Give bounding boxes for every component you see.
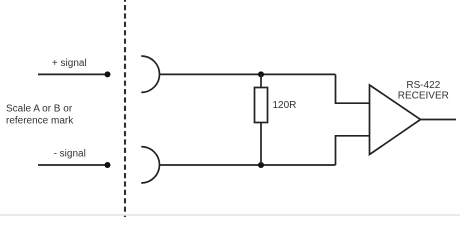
wire - signal input — [38, 164, 105, 166]
svg-text:- signal: - signal — [54, 148, 86, 159]
connector arc bottom — [141, 147, 159, 183]
svg-text:RS-422: RS-422 — [406, 80, 440, 91]
node junction bottom of resistor — [258, 162, 264, 168]
wire top step down into receiver — [336, 74, 370, 103]
resistor R1 body — [255, 88, 268, 123]
wire top run — [159, 73, 335, 75]
wire + signal input — [38, 73, 105, 75]
connector arc top — [141, 56, 159, 92]
dashed boundary line — [124, 0, 126, 217]
svg-text:RECEIVER: RECEIVER — [398, 90, 449, 101]
op-amp U1 RS-422 receiver triangle — [370, 85, 421, 155]
node + signal terminal dot — [105, 71, 111, 77]
wire bottom run — [159, 164, 335, 166]
faint bottom border — [0, 214, 460, 216]
node - signal terminal dot — [105, 162, 111, 168]
resistor R1 top lead — [260, 74, 262, 87]
resistor R1 bottom lead — [260, 123, 262, 166]
svg-text:reference mark: reference mark — [6, 116, 74, 127]
svg-text:Scale A or B or: Scale A or B or — [6, 104, 73, 115]
svg-text:+ signal: + signal — [52, 58, 87, 69]
wire receiver output — [421, 119, 457, 121]
node junction top of resistor — [258, 71, 264, 77]
wire bottom step up into receiver — [336, 136, 370, 165]
svg-text:120R: 120R — [273, 100, 297, 111]
